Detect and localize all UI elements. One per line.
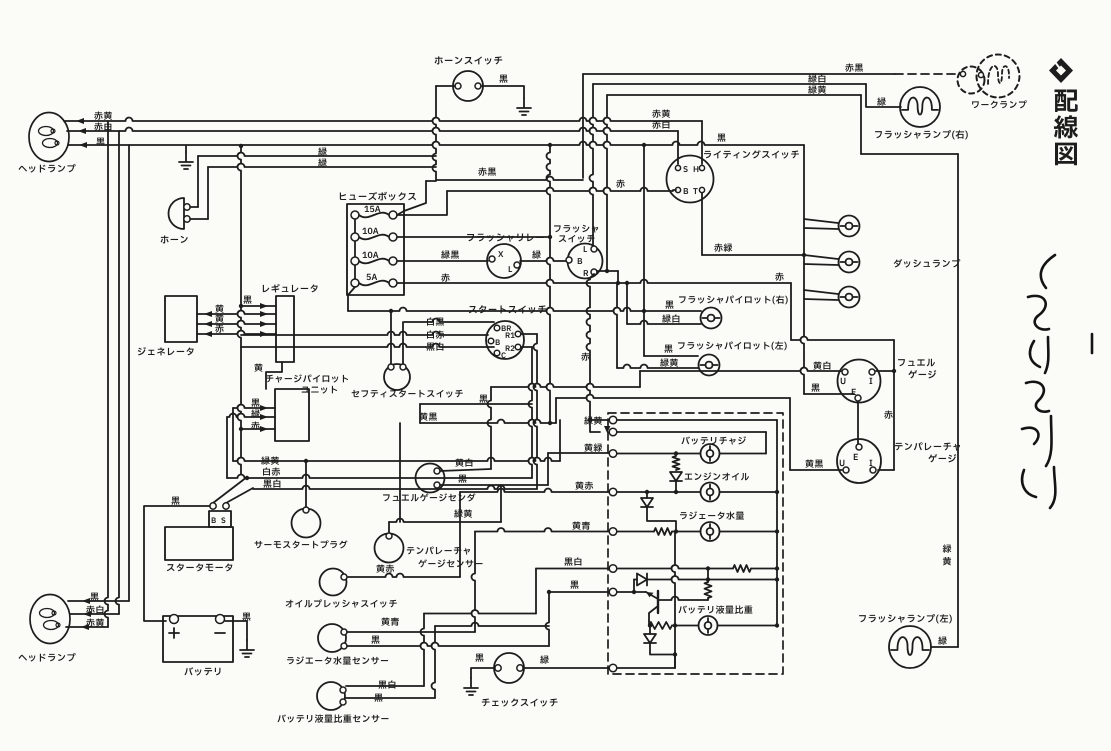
label green-yellow (vertical): [943, 544, 952, 565]
label black (horn switch): [499, 75, 507, 83]
label green-yellow (top): [808, 85, 826, 93]
wire red-black dashed segment: [895, 73, 958, 75]
dash lamp 1: [839, 216, 860, 237]
wire diode drop to radiator row: [641, 498, 653, 507]
fuse 10A (3): [351, 257, 359, 265]
panel terminal green-yellow: [609, 416, 617, 424]
label green-yellow (terminal): [584, 416, 602, 424]
label check switch: [482, 698, 558, 706]
label battery fluid gravity: [678, 605, 752, 613]
label white-black: [427, 317, 444, 325]
horn symbol: [169, 198, 185, 229]
label flasher pilot right: [679, 295, 788, 304]
wire black panel row to transistor: [617, 591, 646, 593]
fuel gauge: [838, 360, 881, 403]
label 10A (3): [362, 252, 378, 258]
label yellow-red (oil): [376, 564, 394, 572]
label green row2: [318, 158, 327, 166]
flasher relay pin letters: [498, 251, 503, 257]
label green (flasher left): [938, 636, 947, 644]
label flasher pilot left: [678, 341, 787, 350]
wire trunk x550 from B3 down: [547, 145, 550, 423]
label red-white (bottom lamp): [86, 605, 103, 613]
label work lamp: [972, 100, 1027, 108]
label black (pilot right): [665, 301, 673, 309]
wire check switch green row: [523, 667, 609, 669]
wire red-black row from riser: [436, 177, 583, 181]
label green (flasher right): [877, 97, 886, 105]
horn wires: [190, 206, 198, 208]
wire flasher lamp left lead: [931, 646, 958, 648]
wire black-white row to start switch C: [241, 344, 494, 348]
panel terminal yellow-blue: [609, 528, 617, 536]
label headlamp (bottom): [19, 653, 76, 662]
wire battery fluid lamp row: [672, 625, 698, 627]
wire radiator yellow-blue row: [347, 631, 475, 633]
battery polarity marks: [169, 628, 179, 638]
wire black dash trunk to fuel gauge E: [804, 393, 854, 395]
wire red-black top line to work lamp (solid part): [582, 74, 584, 178]
label black (unit): [251, 399, 259, 407]
label yellow-white (gauge): [813, 361, 830, 369]
label temperature gauge: [895, 442, 960, 450]
panel terminal charge: [609, 450, 617, 458]
wire gen-reg row3: [197, 331, 276, 335]
radiator level lamp: [701, 522, 720, 541]
wire left trunk x241: [238, 146, 241, 474]
wire unit green row: [227, 414, 275, 418]
label dash lamp: [894, 259, 961, 268]
fuse 5A: [351, 279, 359, 287]
label yellow-white (sender): [455, 458, 472, 466]
label red (row3): [215, 324, 223, 332]
wire bottom headlamp black row: [68, 600, 129, 602]
label flasher lamp left: [859, 614, 952, 623]
wire 10A-2 row: [397, 236, 550, 238]
label battery charge: [681, 436, 746, 444]
wire green row 2 with horn drop: [208, 164, 436, 168]
wire bus red-white B2: headlamp to lighting-switch S: [67, 128, 678, 131]
label safety start switch: [352, 390, 463, 398]
label green-black: [441, 250, 459, 258]
label black-white (sensor): [378, 680, 395, 688]
label yellow-black (row): [419, 412, 437, 420]
label green row1: [318, 147, 327, 155]
flasher lamp right: [900, 87, 940, 127]
wire sender yellow-white lead: [440, 469, 491, 471]
label charge pilot unit: [266, 374, 348, 382]
label fuel gauge sender: [383, 493, 475, 501]
label black (battery): [242, 613, 250, 621]
label flasher lamp right: [875, 130, 968, 139]
temp gauge pin letters: [854, 454, 858, 460]
wire relay L to flasher switch B: [520, 258, 566, 261]
lighting switch: [667, 156, 714, 203]
label start switch: [469, 305, 546, 313]
label headlamp (top): [19, 164, 76, 173]
label temp gauge sensor: [407, 547, 470, 555]
fuse box outline: [347, 204, 404, 295]
wire vertical trunk x129 to bottom headlamp black: [128, 145, 130, 601]
wire unit black row: [233, 405, 275, 408]
wire yellow-black feed to temp gauge U: [556, 395, 790, 398]
wire horn-switch left lead down to fuse area: [436, 85, 455, 87]
label black (check switch): [475, 654, 483, 662]
label thermo start plug: [255, 540, 348, 548]
label green (relay out): [532, 250, 541, 258]
junction B3/x241: [239, 144, 243, 148]
oil pressure switch: [320, 569, 347, 596]
wire 10A-3 row green-black to flasher relay X: [397, 260, 488, 262]
label regulator: [263, 284, 318, 293]
wire bottom headlamp red-white row: [70, 613, 119, 615]
engine oil lamp: [701, 483, 720, 502]
generator box: [165, 296, 197, 342]
wire transistor base row: [658, 597, 708, 601]
junction B3/x550: [548, 143, 552, 147]
wire white-black row to start switch BR: [404, 319, 494, 322]
wire BS to battery plus: [144, 506, 210, 621]
wire unit riser x227 to white-red link: [226, 417, 228, 478]
label oil pressure switch: [286, 599, 397, 607]
handwritten note (vertical cursive): [1022, 255, 1092, 508]
label 15A: [364, 206, 380, 212]
wire junction x644 riser to pilot feeds: [643, 145, 645, 356]
label black: [96, 138, 104, 146]
label red (unit): [251, 421, 259, 429]
wire black row under start switch: [420, 403, 532, 405]
ground drop from B3: [185, 146, 187, 152]
wire battery charge lamp row: [617, 453, 700, 455]
label black-white (terminal): [564, 557, 581, 565]
wire safety switch left lead: [390, 313, 392, 364]
wire regulator to charge pilot unit: [266, 362, 282, 389]
battery charge lamp: [701, 444, 720, 463]
wire right edge trunk down to flasher lamp left: [957, 154, 959, 647]
battery box: [163, 616, 233, 662]
wire white-red return row: [227, 475, 532, 478]
wire red feed riser: [790, 283, 792, 340]
label green (unit): [251, 409, 260, 417]
fuel gauge sender: [416, 464, 445, 493]
flasher pilot right lamp: [701, 308, 722, 329]
label red-white: [94, 122, 111, 130]
wire battery sensor black-white stairs: [346, 685, 424, 687]
wire thermo plug lead: [305, 461, 307, 507]
wire green-white line to flasher lamp right: [590, 84, 594, 249]
label yellow-blue (radiator): [381, 617, 399, 625]
wire black-white panel row with resistor: [617, 565, 733, 569]
safety start switch: [384, 364, 410, 390]
dash lamp 3: [839, 287, 860, 308]
wire black row to regulator: [241, 305, 276, 307]
label red-green: [714, 243, 732, 251]
headlamp (bottom) symbol: [30, 595, 70, 644]
wire bottom headlamp red-yellow row: [66, 626, 108, 628]
label starter motor: [167, 563, 232, 571]
label radiator level sensor: [287, 656, 388, 664]
fuse 15A: [351, 211, 359, 219]
panel terminal black: [609, 588, 617, 596]
panel terminal yellow-red: [609, 488, 617, 496]
title diamond icon: [1049, 58, 1073, 83]
label fuel gauge: [898, 359, 935, 367]
wire black row to pilot left: [597, 270, 618, 272]
wire lighting switch B feed: [673, 189, 676, 191]
label green-yellow (pilot left): [660, 358, 678, 366]
label red-black (top): [845, 63, 863, 71]
label black-white (switch): [426, 342, 443, 350]
label black (B3 right): [717, 134, 725, 142]
label red (V590): [581, 352, 589, 360]
wire yellow-black row: [420, 420, 556, 424]
label black (bottom lamp): [90, 593, 98, 601]
label red-yellow (bus end): [652, 109, 670, 117]
title text wiring-diagram: [1054, 90, 1078, 166]
wire yellow-white row to fuel gauge U: [491, 384, 640, 387]
wire collector resistor row: [648, 621, 650, 626]
instrument panel dashed box: [608, 413, 783, 674]
label red-yellow: [94, 111, 112, 119]
battery level sensor: [317, 682, 345, 710]
flasher pilot left lamp: [699, 355, 720, 376]
wire battery sensor black stairs: [346, 697, 435, 699]
label red-white (bus end): [652, 120, 669, 128]
radiator level sensor: [318, 624, 346, 652]
wire radiator lamp row: [617, 531, 654, 533]
wire start switch R1/R2 to black drop: [521, 333, 537, 335]
label lighting switch: [704, 150, 799, 158]
label black (sensor): [374, 694, 382, 702]
wire panel row yellow-green: [617, 431, 766, 433]
wire radiator black row: [347, 643, 549, 646]
starter motor box: [165, 527, 233, 560]
wire unit red row: [241, 428, 275, 430]
label red (dash trunk): [775, 272, 783, 280]
wire green-yellow line to right edge trunk: [604, 95, 608, 271]
wire safety switch right lead: [402, 322, 404, 364]
lighting switch pin letters: [683, 166, 687, 172]
label white-red (switch): [427, 330, 444, 338]
label black (gauge E): [811, 384, 819, 392]
starter solenoid BS: [209, 511, 231, 527]
wire black terminal row: [549, 591, 609, 593]
wire 5A row red: [397, 280, 791, 284]
label black-white (row): [263, 479, 280, 487]
wire white-red row to start switch B: [241, 332, 488, 336]
flasher lamp left: [889, 626, 931, 668]
wire fuel gauge I to red riser: [876, 370, 894, 372]
label flasher relay: [467, 233, 544, 241]
wire vertical resistor (battery fluid): [707, 569, 709, 583]
regulator box: [276, 296, 294, 362]
junction B3/x644: [642, 143, 646, 147]
wire vertical trunk x119 to bottom headlamp red-white: [116, 131, 120, 614]
label radiator level: [680, 511, 744, 519]
work lamp symbol: [958, 67, 985, 94]
flasher switch: [568, 244, 603, 279]
label yellow-black (temp gauge): [805, 459, 823, 467]
wire unit riser x233 to green-yellow row: [232, 408, 234, 461]
label red (gauge riser): [884, 410, 892, 418]
wire green-yellow long row: [233, 458, 560, 461]
dash lamp trunk: [801, 145, 805, 394]
wire check switch to ground: [471, 668, 495, 678]
label yellow (row2): [215, 314, 223, 322]
label green-yellow (row): [261, 456, 279, 464]
label horn switch: [435, 56, 503, 64]
panel terminal green: [609, 664, 617, 672]
label black (terminal): [570, 581, 578, 589]
label red-yellow (bottom lamp): [86, 618, 104, 626]
wire black-white return row: [253, 486, 537, 489]
wire vertical trunk x108 to bottom headlamp red-yellow: [105, 121, 109, 627]
label battery: [184, 667, 220, 675]
wire panel row green-yellow top: [617, 419, 777, 421]
battery fluid lamp: [699, 616, 718, 635]
fuel gauge pin letters: [841, 378, 846, 384]
wire sender black lead: [440, 484, 548, 486]
label yellow (row1): [215, 304, 223, 312]
temperature gauge sensor: [375, 534, 404, 563]
start switch pin letters: [502, 326, 511, 331]
wire green panel row: [617, 667, 675, 669]
label red (5A row): [441, 273, 449, 281]
label black (regulator): [243, 296, 251, 304]
wire resistor+diode drop to engine oil row: [673, 456, 680, 470]
wire fuse box bottom exit to black pilot row: [348, 287, 355, 311]
wire diode row (battery fluid): [634, 579, 637, 581]
label green-white (pilot right): [662, 314, 679, 322]
wire gen-reg row2: [197, 321, 276, 324]
wire lighting switch T to dash lamp trunk: [701, 193, 703, 255]
flasher switch pin letters: [584, 246, 587, 252]
BS letters: [212, 518, 216, 523]
temperature gauge: [837, 439, 881, 483]
wire bus red-yellow B1: headlamp to lighting-switch H: [64, 118, 702, 121]
label green (check switch): [540, 655, 549, 663]
wire BS diagonal leads: [213, 477, 247, 503]
label red (to lighting switch B): [616, 179, 624, 187]
wire diode down to green row: [644, 634, 656, 643]
wire 15A row right to red row: [397, 191, 447, 215]
wire yellow-red terminal row: [460, 489, 609, 492]
label black (under switch): [479, 395, 487, 403]
label yellow (reg-unit): [254, 363, 262, 371]
charge pilot unit box: [275, 389, 309, 441]
wire green-yellow row to pilot left: [614, 283, 618, 368]
wire gauge E-E link: [857, 402, 859, 444]
wire green row 1 with horn drop: [198, 153, 436, 157]
start switch: [486, 321, 524, 359]
wire yellow-blue terminal row: [475, 528, 609, 532]
label black (BS feed): [171, 497, 179, 505]
wire horn-switch right lead to ground: [481, 86, 524, 98]
wire oil switch yellow-red row: [348, 574, 460, 578]
wire green-yellow sender row: [389, 519, 501, 522]
label black (radiator): [371, 636, 379, 644]
check switch: [494, 653, 524, 683]
label generator: [138, 347, 194, 355]
fuse 10A (2): [351, 233, 359, 241]
horn switch: [453, 71, 483, 101]
label white-red (row): [263, 467, 280, 475]
label yellow-blue (terminal): [572, 521, 590, 529]
fuse internal left bus: [354, 215, 356, 283]
wire black row to pilot right: [348, 308, 701, 312]
dash lamp 2: [839, 252, 860, 273]
headlamp (top) symbol: [48, 136, 50, 138]
wire engine oil lamp row: [617, 491, 700, 493]
label black (pilot left): [664, 345, 672, 353]
wire bus black B3: headlamp to dash-lamp trunk: [68, 142, 804, 146]
label 10A (2): [362, 228, 378, 234]
thermo start plug: [292, 509, 321, 538]
label 5A: [367, 274, 378, 280]
transistor Q1 (battery fluid): [657, 591, 659, 613]
panel terminal yellow-green: [609, 428, 617, 436]
wire battery minus to ground: [225, 621, 247, 640]
label flasher switch: [554, 225, 598, 233]
label red-black: [478, 167, 496, 175]
label engine oil: [685, 472, 749, 480]
wire flasher switch R stub: [590, 274, 594, 278]
label green-yellow (sender): [454, 509, 472, 517]
label battery level sensor: [277, 714, 388, 722]
panel terminal black-white: [609, 565, 617, 573]
wire gen-reg row1: [197, 311, 276, 315]
label yellow-green (terminal row): [584, 443, 602, 451]
wire central panel trunk: [672, 532, 676, 669]
wire green-white row to pilot right: [626, 283, 628, 324]
wire 15A output riser: [397, 181, 426, 215]
label black (sender): [458, 475, 466, 483]
label fuse box: [340, 192, 416, 201]
label horn: [161, 235, 188, 243]
label yellow-red (terminal): [575, 481, 593, 489]
flasher relay: [487, 244, 521, 278]
label green-white (top): [808, 74, 825, 82]
